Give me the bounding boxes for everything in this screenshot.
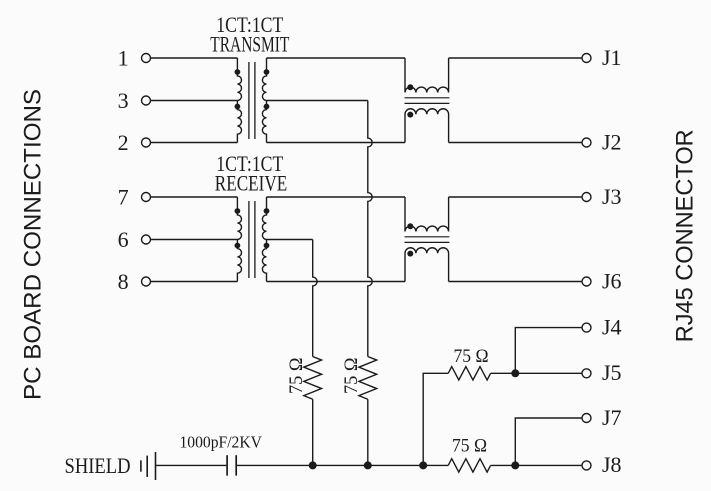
svg-text:J2: J2	[602, 129, 622, 154]
svg-text:75 Ω: 75 Ω	[454, 346, 489, 367]
pin 7 terminal	[142, 193, 151, 202]
wire T2 secondary top to choke L2	[267, 196, 406, 198]
choke L2 (receive) bottom polarity dot	[407, 251, 413, 257]
choke L1 (transmit) top winding	[405, 58, 449, 93]
transformer T1 (transmit) secondary winding	[262, 58, 266, 101]
choke L2 (receive) top winding	[405, 197, 449, 232]
svg-text:75 Ω: 75 Ω	[286, 358, 307, 395]
shield symbol	[140, 460, 142, 471]
svg-text:TRANSMIT: TRANSMIT	[210, 31, 289, 56]
transformer T1 (transmit) primary polarity dots	[235, 69, 241, 75]
resistor R1 75 ohm (vertical)	[304, 357, 322, 400]
svg-text:75 Ω: 75 Ω	[341, 358, 362, 395]
wire T1 secondary top to choke L1	[267, 57, 406, 59]
wire node A vertical branch (hops over T2 bottom wire)	[313, 240, 317, 357]
wire shield to capacitor C1	[156, 464, 227, 466]
svg-text:J5: J5	[602, 360, 622, 385]
pin J1 terminal	[582, 54, 591, 63]
svg-text:SHIELD: SHIELD	[65, 453, 131, 478]
transformer T2 (receive) secondary polarity dots	[264, 208, 270, 214]
svg-text:6: 6	[118, 227, 129, 252]
pin J8 terminal	[582, 461, 591, 470]
svg-text:J6: J6	[602, 268, 622, 293]
svg-text:1: 1	[118, 46, 129, 71]
svg-text:RJ45 CONNECTOR: RJ45 CONNECTOR	[672, 129, 699, 342]
svg-text:PC BOARD CONNECTIONS: PC BOARD CONNECTIONS	[20, 89, 47, 400]
pin J2 terminal	[582, 138, 591, 147]
node C junction	[419, 461, 427, 469]
svg-text:J3: J3	[602, 184, 622, 209]
wire choke L1 to J2	[449, 142, 582, 144]
pin J4 terminal	[582, 323, 591, 332]
transformer T1 (transmit) secondary polarity dots	[264, 69, 270, 75]
pin J3 terminal	[582, 193, 591, 202]
pin J5 terminal	[582, 369, 591, 378]
svg-text:3: 3	[118, 88, 129, 113]
wire choke L2 to J3	[449, 196, 582, 198]
svg-text:J4: J4	[602, 314, 622, 339]
pin 8 terminal	[142, 277, 151, 286]
wire T1 secondary bottom to choke L1	[267, 142, 406, 144]
pin 1 terminal	[142, 54, 151, 63]
node A junction	[309, 461, 317, 469]
resistor R2 75 ohm (vertical)	[359, 357, 377, 400]
svg-text:1000pF/2KV: 1000pF/2KV	[179, 433, 262, 452]
wire T2 secondary bottom to choke L2	[267, 281, 406, 283]
resistor R3 75 ohm (horizontal)	[448, 367, 490, 380]
wire pin 1 to transformer	[151, 57, 238, 59]
wire choke L2 to J6	[449, 281, 582, 283]
wire pin 2 to transformer	[151, 142, 238, 144]
resistor R4 75 ohm (horizontal)	[448, 459, 490, 472]
wire pin 7 to transformer	[151, 196, 238, 198]
transformer T1 (transmit) primary winding	[237, 58, 241, 101]
capacitor C1 1000pF/2KV	[226, 455, 228, 475]
choke L1 (transmit) top polarity dot	[407, 84, 413, 90]
node E junction	[511, 461, 519, 469]
wire node A resistor to ground bus	[312, 399, 314, 465]
node B junction	[364, 461, 372, 469]
svg-text:J7: J7	[602, 405, 622, 430]
svg-text:2: 2	[118, 130, 129, 155]
wire choke L1 to J1	[449, 57, 582, 59]
wire pin 8 to transformer	[151, 281, 238, 283]
choke L2 (receive) top polarity dot	[407, 223, 413, 229]
pin 3 terminal	[142, 96, 151, 105]
svg-text:RECEIVE: RECEIVE	[215, 170, 288, 195]
wire pin 3 to transformer	[151, 100, 238, 102]
wire T1 center tap to node B	[267, 100, 368, 102]
node D junction	[511, 369, 519, 377]
svg-text:7: 7	[118, 185, 129, 210]
wire R4 to J8	[491, 464, 582, 466]
choke L1 (transmit) bottom winding	[405, 109, 449, 143]
transformer T2 (receive) secondary winding	[262, 197, 266, 240]
transformer T2 (receive) primary winding	[237, 197, 241, 240]
transformer T2 (receive) primary polarity dots	[235, 208, 241, 214]
wire pin 6 to transformer	[151, 239, 238, 241]
svg-text:J8: J8	[602, 452, 622, 477]
wire ground bus capacitor to resistor R4	[237, 464, 448, 466]
pin 2 terminal	[142, 138, 151, 147]
svg-text:J1: J1	[602, 45, 622, 70]
choke L2 (receive) core	[405, 236, 450, 238]
wire node C up to R3	[423, 373, 448, 465]
wire node B vertical branch (hops over three wires)	[368, 101, 372, 357]
svg-text:8: 8	[118, 269, 129, 294]
pin J7 terminal	[582, 414, 591, 423]
wire node E up to J7	[515, 418, 582, 465]
wire node B resistor to ground bus	[367, 399, 369, 465]
choke L2 (receive) bottom winding	[405, 248, 449, 282]
wire R3 to J5	[491, 372, 582, 374]
choke L1 (transmit) bottom polarity dot	[407, 112, 413, 118]
wire T2 center tap to node A	[267, 239, 313, 241]
transformer T2 (receive) core	[248, 201, 250, 278]
transformer T1 (transmit) core	[248, 62, 250, 139]
pin 6 terminal	[142, 235, 151, 244]
pin J6 terminal	[582, 277, 591, 286]
wire node D up to J4	[515, 328, 582, 374]
choke L1 (transmit) core	[405, 97, 450, 99]
svg-text:75 Ω: 75 Ω	[452, 435, 487, 456]
